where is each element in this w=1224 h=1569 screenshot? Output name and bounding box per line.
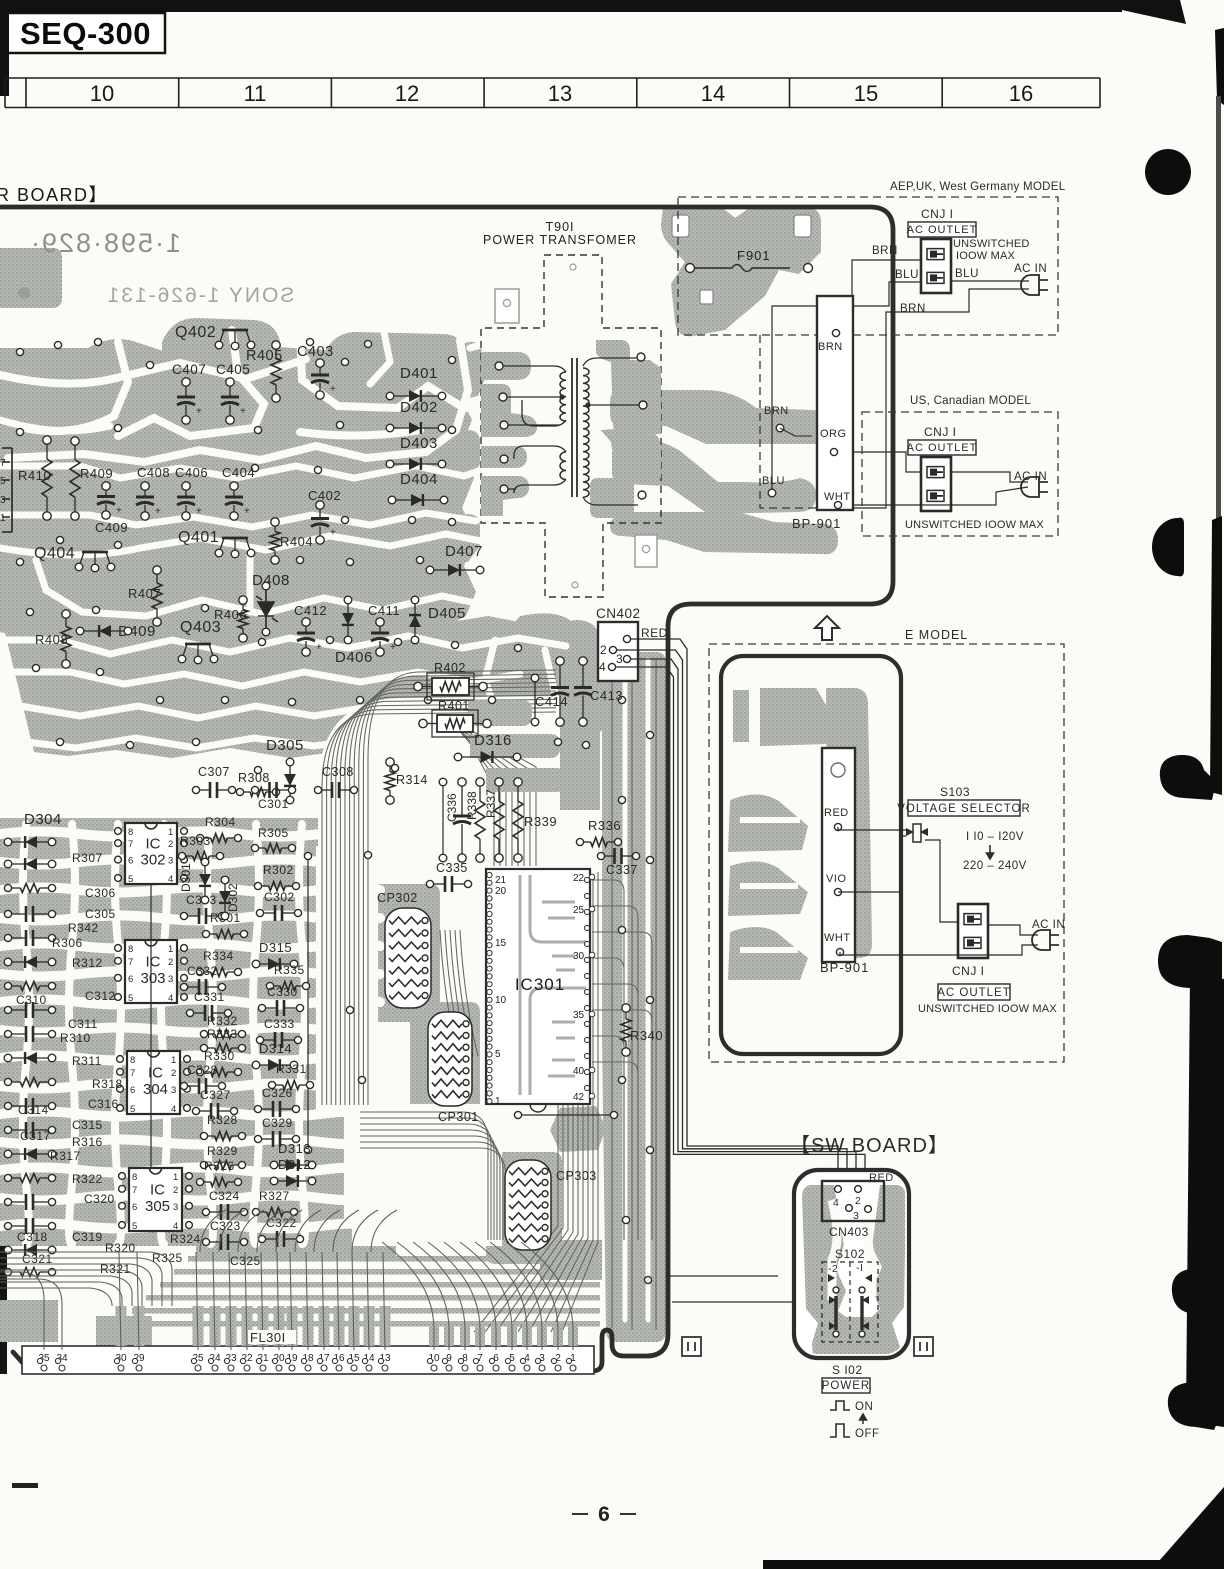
svg-text:C331: C331	[194, 990, 225, 1004]
svg-text:【SW BOARD】: 【SW BOARD】	[790, 1135, 949, 1157]
svg-text:C317: C317	[20, 1129, 51, 1143]
svg-text:BRN: BRN	[818, 341, 843, 353]
svg-text:R404: R404	[280, 534, 313, 549]
svg-text:C310: C310	[16, 993, 47, 1007]
scan artifact bottom left dash	[12, 1483, 38, 1488]
svg-text:C333: C333	[264, 1017, 295, 1031]
svg-text:12: 12	[395, 81, 419, 106]
connector CNJ1 E model	[958, 904, 988, 958]
svg-text:7: 7	[128, 957, 133, 968]
svg-text:C406: C406	[175, 465, 208, 480]
T901 mounting holes	[495, 289, 519, 323]
svg-text:C337: C337	[606, 863, 638, 877]
svg-text:POWER: POWER	[822, 1380, 870, 1392]
resistor pack CP301	[428, 1012, 472, 1106]
svg-text:4: 4	[168, 993, 173, 1004]
T901 primary winding	[560, 372, 566, 421]
svg-text:30: 30	[573, 951, 585, 962]
op-amp IC304	[127, 1051, 180, 1114]
svg-text:4: 4	[168, 874, 173, 885]
US Canadian model box	[760, 335, 1058, 536]
board outline R BOARD	[0, 207, 893, 1371]
svg-text:C332: C332	[187, 964, 218, 978]
svg-text:3: 3	[853, 1210, 859, 1222]
svg-text:C306: C306	[85, 886, 116, 900]
svg-text:7: 7	[0, 458, 6, 469]
svg-text:C409: C409	[95, 520, 128, 535]
svg-text:US, Canadian MODEL: US, Canadian MODEL	[910, 395, 1031, 407]
svg-text:C315: C315	[72, 1118, 103, 1132]
svg-text:C311: C311	[68, 1017, 98, 1031]
svg-text:10: 10	[495, 995, 507, 1006]
svg-text:R336: R336	[588, 818, 621, 833]
svg-text:40: 40	[573, 1066, 585, 1077]
svg-text:IC301: IC301	[515, 975, 565, 994]
svg-text:1: 1	[168, 827, 173, 838]
svg-text:R312: R312	[72, 956, 103, 970]
svg-text:42: 42	[573, 1092, 585, 1103]
svg-text:R302: R302	[263, 863, 294, 877]
svg-text:IC: IC	[148, 1064, 163, 1081]
svg-text:D302: D302	[226, 883, 240, 912]
svg-text:CNJ I: CNJ I	[924, 425, 957, 439]
svg-text:C335: C335	[436, 861, 468, 875]
svg-text:D407: D407	[445, 543, 483, 560]
svg-text:+: +	[116, 506, 122, 517]
grid ruler band	[5, 78, 1100, 108]
svg-text:6: 6	[128, 974, 133, 985]
svg-text:Q402: Q402	[175, 324, 216, 341]
svg-text:R335: R335	[274, 963, 305, 977]
E model copper traces	[733, 690, 749, 742]
connector key box 11 right	[914, 1337, 933, 1356]
svg-text:AC IN: AC IN	[1014, 263, 1047, 275]
svg-text:1: 1	[495, 1096, 501, 1107]
svg-text:3: 3	[168, 856, 173, 867]
svg-text:D305: D305	[266, 737, 304, 754]
wire fan to connector	[0, 1210, 573, 1350]
copper streaks below CN402	[468, 700, 532, 726]
scan artifacts right edge	[1215, 28, 1224, 105]
svg-text:D401: D401	[400, 365, 438, 382]
svg-text:35: 35	[573, 1010, 585, 1021]
svg-text:S102: S102	[835, 1247, 865, 1261]
svg-text:2: 2	[173, 1185, 178, 1196]
svg-text:1: 1	[171, 1055, 176, 1066]
svg-text:C318: C318	[17, 1230, 48, 1244]
svg-text:F901: F901	[737, 248, 771, 263]
svg-text:IC: IC	[146, 953, 161, 970]
svg-text:R320: R320	[105, 1241, 136, 1255]
svg-text:D404: D404	[400, 471, 438, 488]
svg-text:D408: D408	[252, 572, 290, 589]
svg-text:6: 6	[598, 1503, 610, 1526]
svg-text:C408: C408	[137, 465, 170, 480]
svg-text:C412: C412	[294, 603, 327, 618]
svg-text:8: 8	[132, 1172, 137, 1183]
AC plug US	[1021, 477, 1039, 497]
svg-text:R342: R342	[68, 921, 99, 935]
svg-text:C312: C312	[85, 989, 116, 1003]
svg-text:-I: -I	[856, 1262, 863, 1274]
svg-text:+: +	[390, 642, 396, 653]
svg-text:S103: S103	[940, 785, 970, 799]
op-amp IC301	[486, 869, 590, 1104]
svg-text:I I0 – I20V: I I0 – I20V	[966, 831, 1024, 843]
svg-text:2: 2	[168, 839, 173, 850]
svg-text:C319: C319	[72, 1230, 103, 1244]
svg-text:BLU: BLU	[762, 475, 785, 487]
svg-text:7: 7	[132, 1185, 137, 1196]
svg-text:C326: C326	[262, 1086, 293, 1100]
svg-text:UNSWITCHED IOOW MAX: UNSWITCHED IOOW MAX	[918, 1003, 1057, 1015]
connector CN402	[598, 622, 638, 681]
svg-text:IC: IC	[150, 1181, 165, 1198]
svg-text:2: 2	[600, 643, 607, 657]
svg-text:AC OUTLET: AC OUTLET	[907, 442, 978, 454]
svg-text:BP-901: BP-901	[820, 960, 869, 975]
svg-text:5: 5	[132, 1221, 137, 1232]
svg-text:10: 10	[90, 81, 114, 106]
svg-text:R310: R310	[60, 1031, 91, 1045]
svg-text:+: +	[196, 506, 202, 517]
svg-text:VOLTAGE SELECTOR: VOLTAGE SELECTOR	[897, 803, 1031, 815]
svg-text:BRN: BRN	[900, 303, 926, 315]
power ON symbol	[830, 1401, 850, 1410]
wire IC chain vertical	[150, 884, 152, 1168]
svg-text:R303: R303	[180, 834, 211, 848]
svg-text:S I02: S I02	[832, 1363, 863, 1377]
svg-text:D312: D312	[278, 1157, 311, 1172]
thin trace contours	[318, 696, 560, 1108]
svg-text:+: +	[330, 384, 336, 395]
AEP UK West Germany model box	[678, 197, 1058, 335]
svg-text:R337: R337	[484, 789, 498, 818]
BP-901 terminal strip	[817, 296, 853, 510]
svg-text:21: 21	[495, 875, 507, 886]
svg-text:R314: R314	[396, 773, 428, 787]
svg-text:4: 4	[599, 660, 606, 674]
svg-text:BRN: BRN	[872, 245, 898, 257]
svg-text:+: +	[316, 642, 322, 653]
BP-901 E model strip	[822, 748, 855, 962]
svg-text:7: 7	[128, 839, 133, 850]
svg-text:1: 1	[173, 1172, 178, 1183]
svg-text:CNJ I: CNJ I	[921, 207, 954, 221]
svg-text:+: +	[330, 528, 336, 539]
svg-text:15: 15	[495, 938, 507, 949]
svg-text:C336: C336	[445, 793, 459, 822]
svg-text:C301: C301	[258, 797, 289, 811]
svg-text:D316: D316	[474, 732, 512, 749]
svg-text:BRN: BRN	[764, 405, 789, 417]
AC plug AEP	[1021, 275, 1039, 295]
svg-text:C411: C411	[368, 603, 400, 618]
svg-text:C320: C320	[84, 1192, 115, 1206]
svg-text:AC OUTLET: AC OUTLET	[937, 987, 1011, 999]
svg-text:2: 2	[171, 1068, 176, 1079]
T901 secondary winding	[583, 368, 589, 497]
svg-text:C316: C316	[88, 1097, 119, 1111]
svg-text:1: 1	[168, 944, 173, 955]
svg-text:R307: R307	[72, 851, 103, 865]
svg-text:D403: D403	[400, 435, 438, 452]
svg-text:3: 3	[616, 652, 623, 666]
svg-text:C308: C308	[322, 765, 354, 779]
svg-text:14: 14	[701, 81, 725, 106]
svg-text:22: 22	[573, 873, 585, 884]
trace channels	[0, 359, 306, 384]
svg-text:5: 5	[495, 1049, 501, 1060]
svg-text:8: 8	[128, 827, 133, 838]
svg-text:3: 3	[173, 1202, 178, 1213]
svg-text:R311: R311	[72, 1054, 102, 1068]
AC plug E model	[1032, 930, 1050, 950]
SW board outline	[794, 1170, 909, 1358]
svg-text:R334: R334	[203, 949, 234, 963]
svg-text:R339: R339	[524, 814, 557, 829]
svg-text:8: 8	[128, 944, 133, 955]
svg-text:WHT: WHT	[824, 932, 851, 944]
svg-text:R330: R330	[204, 1049, 235, 1063]
resistor pack CP303	[505, 1160, 551, 1250]
wire risers above IC301	[442, 782, 444, 858]
E model box	[709, 644, 1064, 1062]
svg-text:ORG: ORG	[820, 428, 847, 440]
svg-text:16: 16	[1009, 81, 1033, 106]
svg-text:R304: R304	[205, 815, 236, 829]
svg-text:C305: C305	[85, 907, 116, 921]
page top black bar	[0, 0, 1122, 12]
svg-text:D313: D313	[278, 1141, 311, 1156]
svg-text:8: 8	[130, 1055, 135, 1066]
svg-text:2: 2	[168, 957, 173, 968]
svg-text:R308: R308	[238, 771, 270, 785]
svg-text:BLU: BLU	[955, 268, 979, 280]
E model board outline	[721, 656, 901, 1054]
svg-text:R333: R333	[207, 1027, 238, 1041]
svg-text:SEQ-300: SEQ-300	[20, 16, 151, 51]
scan artifact: punch hole dot top right	[1145, 149, 1191, 195]
left edge black sliver	[0, 0, 9, 96]
svg-text:25: 25	[573, 905, 585, 916]
svg-text:15: 15	[854, 81, 878, 106]
svg-text:13: 13	[548, 81, 572, 106]
svg-text:-2: -2	[828, 1263, 838, 1275]
right band trace edges	[612, 658, 656, 1330]
svg-text:+: +	[240, 406, 246, 417]
svg-text:303: 303	[140, 970, 165, 987]
op-amp IC305	[129, 1168, 182, 1231]
svg-text:5: 5	[130, 1104, 135, 1115]
op-amp IC302	[125, 823, 177, 884]
connector key box 11 left	[682, 1337, 701, 1356]
svg-text:6: 6	[132, 1202, 137, 1213]
scan artifact bottom bar	[763, 1560, 1163, 1569]
svg-text:C302: C302	[264, 890, 295, 904]
svg-text:R329: R329	[207, 1144, 238, 1158]
power OFF symbol	[830, 1424, 850, 1437]
svg-text:R318: R318	[92, 1077, 123, 1091]
svg-text:BLU: BLU	[895, 269, 919, 281]
svg-text:RED: RED	[824, 807, 849, 819]
transformer T901 dashed outline	[481, 255, 661, 597]
svg-text:R BOARD】: R BOARD】	[0, 185, 108, 205]
svg-text:C404: C404	[222, 465, 255, 480]
svg-text:+: +	[244, 506, 250, 517]
T901 copper fingers	[481, 352, 531, 380]
svg-text:D315: D315	[259, 940, 292, 955]
svg-text:E MODEL: E MODEL	[905, 628, 968, 642]
svg-text:Q401: Q401	[178, 529, 219, 546]
svg-text:T90I: T90I	[545, 220, 574, 234]
svg-text:3: 3	[171, 1085, 176, 1096]
T901 core	[571, 358, 573, 497]
svg-text:CN402: CN402	[596, 606, 641, 621]
arrow up symbol	[815, 616, 839, 640]
S102 contacts	[836, 1296, 862, 1330]
power arrow	[860, 1414, 867, 1424]
svg-text:304: 304	[143, 1081, 168, 1098]
fuse F901	[672, 215, 689, 237]
left edge connector bracket	[2, 448, 12, 532]
connector FL301	[22, 1346, 594, 1374]
svg-text:R324: R324	[170, 1232, 201, 1246]
connector CN403	[822, 1181, 884, 1221]
svg-text:D304: D304	[24, 811, 62, 828]
svg-text:D402: D402	[400, 399, 438, 416]
svg-text:C314: C314	[18, 1103, 49, 1117]
svg-text:R328: R328	[207, 1113, 238, 1127]
svg-text:D405: D405	[428, 605, 466, 622]
svg-text:VIO: VIO	[826, 873, 846, 885]
svg-text:C307: C307	[198, 765, 230, 779]
op-amp IC303	[125, 940, 177, 1003]
svg-text:UNSWITCHED IOOW MAX: UNSWITCHED IOOW MAX	[905, 519, 1044, 531]
svg-text:20: 20	[495, 886, 507, 897]
svg-text:11: 11	[244, 81, 267, 106]
T901 leads	[499, 366, 566, 426]
svg-text:R332: R332	[207, 1014, 238, 1028]
scan artifact bottom right triangle	[1152, 1487, 1224, 1569]
wires E model outlet	[840, 945, 1038, 955]
svg-text:Q404: Q404	[34, 545, 75, 562]
svg-text:6: 6	[128, 856, 133, 867]
svg-text:C328: C328	[187, 1063, 218, 1077]
svg-text:R306: R306	[52, 936, 83, 950]
svg-text:1·598·829·: 1·598·829·	[29, 228, 181, 258]
svg-text:R322: R322	[72, 1172, 103, 1186]
wires S103	[838, 827, 906, 830]
svg-text:RED: RED	[641, 626, 668, 640]
svg-text:R401: R401	[438, 699, 470, 713]
svg-text:C329: C329	[262, 1116, 293, 1130]
svg-text:305: 305	[145, 1198, 170, 1215]
svg-text:4: 4	[833, 1197, 839, 1209]
svg-text:7: 7	[130, 1068, 135, 1079]
svg-text:5: 5	[128, 874, 133, 885]
svg-text:R316: R316	[72, 1135, 103, 1149]
svg-text:R409: R409	[80, 466, 113, 481]
wires US model	[838, 452, 921, 472]
svg-text:R327: R327	[259, 1189, 290, 1203]
copper trace regions (halftone)	[0, 248, 62, 308]
svg-text:4: 4	[173, 1221, 178, 1232]
svg-text:AC OUTLET: AC OUTLET	[907, 224, 978, 236]
svg-text:R317: R317	[50, 1149, 81, 1163]
svg-text:OFF: OFF	[855, 1428, 880, 1440]
scan artifact left edge bar	[0, 1142, 7, 1374]
svg-text:+: +	[155, 506, 161, 517]
svg-text:R340: R340	[630, 1028, 663, 1043]
svg-text:C405: C405	[216, 362, 250, 377]
svg-text:3: 3	[0, 495, 6, 506]
svg-text:5: 5	[0, 476, 6, 487]
svg-text:6: 6	[130, 1085, 135, 1096]
svg-text:R305: R305	[258, 826, 289, 840]
svg-text:IOOW MAX: IOOW MAX	[956, 250, 1016, 262]
svg-text:C323: C323	[210, 1219, 241, 1233]
svg-text:2: 2	[855, 1195, 861, 1207]
svg-text:R326: R326	[204, 1159, 235, 1173]
svg-text:ON: ON	[855, 1401, 873, 1413]
svg-text:CN403: CN403	[829, 1225, 869, 1239]
svg-text:1: 1	[0, 513, 6, 524]
svg-text:BP-901: BP-901	[792, 516, 841, 531]
svg-text:C403: C403	[297, 344, 334, 360]
svg-text:UNSWITCHED: UNSWITCHED	[953, 238, 1030, 250]
svg-text:302: 302	[140, 851, 165, 868]
svg-text:C324: C324	[209, 1189, 240, 1203]
copper columns at connector	[116, 1306, 127, 1346]
wires CN402 to SW board	[631, 639, 838, 1188]
svg-text:AEP,UK, West Germany MODEL: AEP,UK, West Germany MODEL	[890, 181, 1066, 193]
svg-text:CNJ I: CNJ I	[952, 964, 985, 978]
svg-text:D406: D406	[335, 649, 373, 666]
svg-text:5: 5	[128, 993, 133, 1004]
svg-text:D314: D314	[259, 1041, 292, 1056]
svg-text:D301: D301	[179, 863, 193, 892]
left margin component rows	[8, 841, 52, 843]
scattered pads on copper	[16, 348, 23, 355]
svg-text:C327: C327	[200, 1088, 231, 1102]
svg-text:3: 3	[168, 974, 173, 985]
svg-text:C413: C413	[590, 688, 623, 703]
svg-text:CP301: CP301	[438, 1110, 479, 1124]
svg-text:RED: RED	[869, 1172, 894, 1184]
svg-text:4: 4	[171, 1104, 176, 1115]
svg-text:CP303: CP303	[556, 1169, 597, 1183]
svg-text:C330: C330	[267, 985, 298, 999]
svg-text:CP302: CP302	[377, 891, 418, 905]
svg-text:POWER TRANSFOMER: POWER TRANSFOMER	[483, 233, 637, 247]
svg-text:220 – 240V: 220 – 240V	[963, 860, 1027, 872]
wires above connector right	[668, 1276, 852, 1302]
svg-text:R331: R331	[276, 1062, 307, 1076]
svg-text:C402: C402	[308, 488, 341, 503]
model title box SEQ-300	[4, 13, 165, 53]
svg-text:SONY 1-626-131: SONY 1-626-131	[106, 284, 295, 307]
svg-text:IC: IC	[146, 836, 161, 853]
svg-text:+: +	[196, 406, 202, 417]
svg-text:C407: C407	[172, 362, 206, 377]
svg-text:FL30I: FL30I	[250, 1330, 286, 1345]
